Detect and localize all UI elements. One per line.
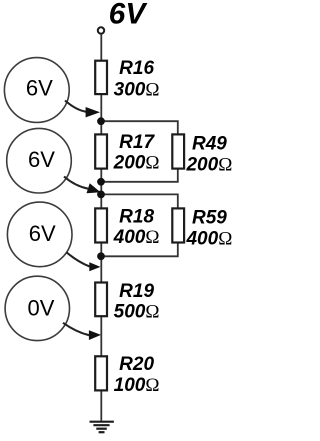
voltmeter reading V3 6V	[7, 202, 72, 267]
ground	[90, 422, 114, 433]
voltmeter reading V4 0V	[5, 276, 69, 340]
wire main vertical bus	[100, 34, 102, 421]
resistor R18	[95, 206, 159, 248]
resistor R59	[172, 208, 232, 250]
resistor R20	[95, 354, 159, 396]
svg-text:0V: 0V	[28, 296, 55, 321]
voltmeter reading V1 6V	[4, 58, 69, 123]
svg-text:400Ω: 400Ω	[113, 227, 160, 248]
wire branch R49 top	[101, 121, 178, 140]
svg-text:6V: 6V	[29, 221, 56, 246]
wire branch R59 top	[101, 194, 178, 214]
svg-text:R20: R20	[119, 354, 154, 375]
resistor R49	[172, 134, 232, 176]
svg-text:6V: 6V	[28, 147, 55, 172]
node C (junction above R18)	[97, 191, 105, 199]
arrow from V1 to node A	[65, 101, 100, 118]
svg-text:100Ω: 100Ω	[114, 375, 160, 396]
node D (junction below R18)	[97, 252, 105, 260]
net label 6V supply	[109, 0, 149, 31]
wire branch R59 bottom	[101, 238, 178, 256]
arrow from V4 to node between R19 and R20	[63, 323, 101, 340]
svg-text:R19: R19	[119, 281, 154, 302]
svg-text:R17: R17	[119, 132, 155, 153]
resistor R17	[95, 132, 159, 173]
svg-text:400Ω: 400Ω	[185, 229, 232, 250]
arrow from V2 to node B/C	[64, 177, 101, 194]
svg-text:R49: R49	[192, 134, 227, 155]
svg-text:R16: R16	[119, 58, 154, 79]
node B (junction below R17)	[97, 178, 105, 186]
node A (junction above R17)	[97, 117, 105, 125]
svg-text:500Ω: 500Ω	[114, 302, 160, 323]
svg-text:6V: 6V	[26, 75, 53, 100]
svg-text:R18: R18	[119, 206, 154, 227]
svg-text:6V: 6V	[109, 0, 149, 31]
svg-text:300Ω: 300Ω	[114, 80, 160, 101]
voltmeter reading V2 6V	[7, 128, 72, 193]
resistor R16	[95, 58, 159, 101]
svg-text:200Ω: 200Ω	[113, 152, 160, 173]
svg-text:200Ω: 200Ω	[185, 155, 232, 176]
resistor R19	[95, 281, 159, 322]
svg-text:R59: R59	[192, 208, 227, 229]
arrow from V3 to node D	[67, 252, 101, 271]
wire branch R49 bottom	[101, 165, 178, 182]
terminal (open circle)	[98, 27, 104, 33]
